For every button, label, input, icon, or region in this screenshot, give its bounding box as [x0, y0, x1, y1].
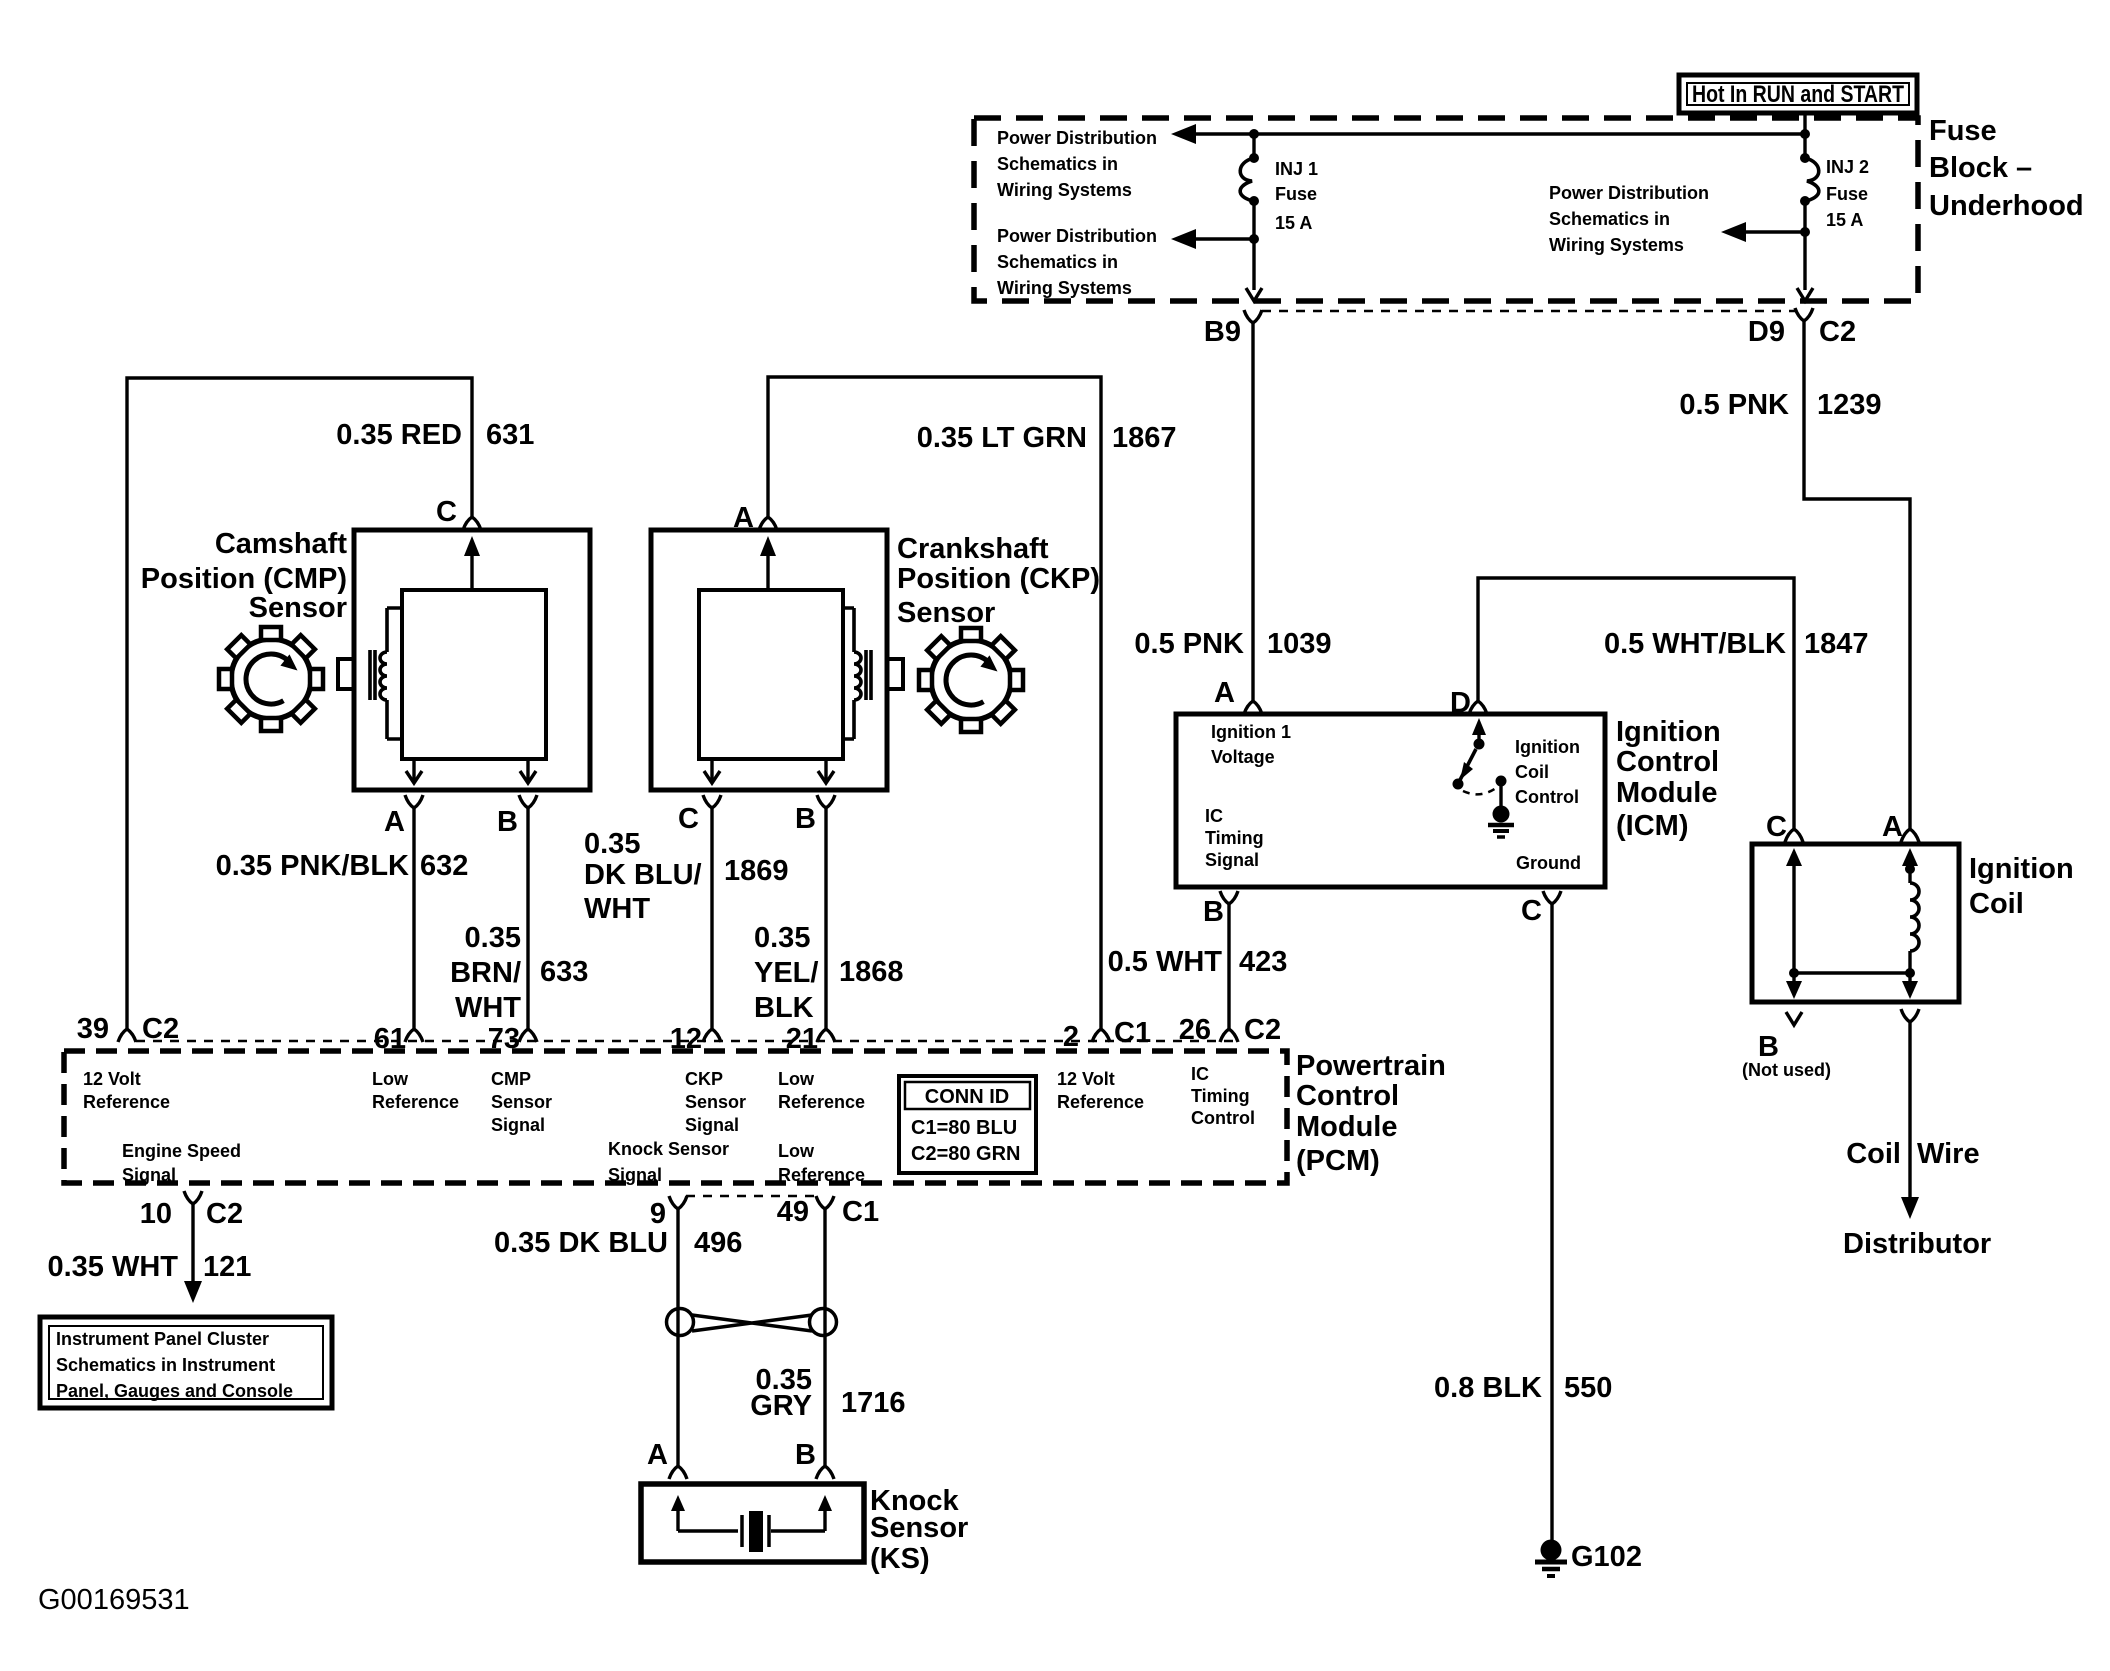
svg-text:Timing: Timing [1191, 1086, 1250, 1106]
svg-text:B: B [795, 1439, 816, 1471]
pin B of CMP sensor [497, 795, 537, 838]
pin C of ICM [1521, 891, 1561, 927]
svg-text:Sensor: Sensor [249, 592, 347, 624]
pin 49 C1 of PCM [777, 1196, 879, 1228]
svg-text:YEL/: YEL/ [754, 957, 818, 989]
svg-text:Underhood: Underhood [1929, 190, 2084, 222]
svg-text:Power Distribution: Power Distribution [997, 226, 1157, 246]
crankshaft position CKP sensor [651, 530, 903, 790]
svg-text:IC: IC [1191, 1064, 1209, 1084]
label: Power Distribution Schematics in Wiring Systems (top left) [997, 128, 1157, 200]
svg-text:Schematics in: Schematics in [997, 154, 1118, 174]
svg-text:15 A: 15 A [1275, 213, 1312, 233]
svg-text:Timing: Timing [1205, 828, 1264, 848]
svg-text:C: C [436, 496, 457, 528]
pin 10 C2 of PCM [140, 1191, 243, 1230]
wire 0.35 LT GRN 1867 (CKP A to PCM 2) [768, 377, 1101, 1029]
svg-text:Schematics in: Schematics in [1549, 209, 1670, 229]
svg-text:Fuse: Fuse [1826, 184, 1868, 204]
svg-text:C1=80 BLU: C1=80 BLU [911, 1117, 1017, 1139]
label: CKP Sensor Signal (pin 12) [685, 1069, 746, 1135]
label: Ignition Coil [1969, 853, 2074, 920]
svg-text:Reference: Reference [1057, 1092, 1144, 1112]
svg-text:G102: G102 [1571, 1541, 1642, 1573]
svg-text:G00169531: G00169531 [38, 1584, 190, 1616]
svg-text:Camshaft: Camshaft [215, 528, 347, 560]
knock sensor KS box [641, 1484, 864, 1562]
svg-text:C1: C1 [842, 1196, 879, 1228]
label: Engine Speed Signal (pin 10) [122, 1141, 241, 1185]
svg-text:Power Distribution: Power Distribution [1549, 183, 1709, 203]
svg-text:GRY: GRY [750, 1390, 812, 1422]
svg-text:49: 49 [777, 1196, 809, 1228]
svg-text:73: 73 [488, 1023, 520, 1055]
svg-text:CMP: CMP [491, 1069, 531, 1089]
svg-text:Wiring Systems: Wiring Systems [1549, 235, 1684, 255]
svg-text:CKP: CKP [685, 1069, 723, 1089]
pin A of ignition coil [1882, 811, 1919, 843]
PCM bottom connector boundary line (knock sensor pins) [686, 1195, 817, 1198]
svg-text:Low: Low [778, 1069, 815, 1089]
powertrain control module PCM dashed box [64, 1051, 1287, 1183]
svg-text:0.5 PNK: 0.5 PNK [1134, 628, 1244, 660]
label: 0.35 BRN/WHT 633 [450, 922, 588, 1024]
label: Knock Sensor Signal (pin 9) [608, 1139, 729, 1185]
pin D of ICM [1450, 687, 1487, 719]
pin B of CKP sensor [795, 795, 835, 835]
junction below INJ1 fuse [1249, 234, 1259, 244]
junction left coil bottom [1789, 968, 1799, 978]
svg-text:15 A: 15 A [1826, 210, 1863, 230]
ignition coil box [1752, 844, 1959, 1002]
svg-text:B9: B9 [1204, 316, 1241, 348]
svg-text:12 Volt: 12 Volt [83, 1069, 141, 1089]
svg-text:Instrument Panel Cluster: Instrument Panel Cluster [56, 1329, 269, 1349]
svg-text:2: 2 [1063, 1021, 1079, 1053]
svg-text:Ignition 1: Ignition 1 [1211, 722, 1291, 742]
svg-text:Ignition: Ignition [1515, 737, 1580, 757]
svg-text:12 Volt: 12 Volt [1057, 1069, 1115, 1089]
label: Power Distribution Schematics in Wiring Systems (lower left) [997, 226, 1157, 298]
svg-text:Schematics in: Schematics in [997, 252, 1118, 272]
label: 0.35 RED 631 [336, 419, 534, 451]
arrow: power distribution feed left from INJ2 [1721, 222, 1805, 242]
svg-text:1039: 1039 [1267, 628, 1332, 660]
svg-text:Low: Low [372, 1069, 409, 1089]
svg-text:12: 12 [670, 1023, 702, 1055]
svg-text:Ignition: Ignition [1969, 853, 2074, 885]
wire 0.35 BRN/WHT 633 (CMP B to PCM 73) [526, 808, 529, 1029]
svg-text:A: A [647, 1439, 668, 1471]
svg-text:IC: IC [1205, 806, 1223, 826]
svg-text:A: A [1882, 811, 1903, 843]
svg-text:Signal: Signal [608, 1165, 662, 1185]
svg-text:C1: C1 [1114, 1017, 1151, 1049]
svg-text:B: B [1203, 896, 1224, 928]
svg-text:INJ 1: INJ 1 [1275, 159, 1318, 179]
pin 61 of PCM [374, 1023, 423, 1055]
svg-text:Powertrain: Powertrain [1296, 1050, 1446, 1082]
svg-text:A: A [384, 806, 405, 838]
ICM internal ground [1493, 806, 1510, 823]
wire 0.35 GRY 1716 (PCM 49 to KS B) [823, 1209, 826, 1466]
wire: INJ1 fuse output exits fuse block [1246, 288, 1262, 301]
knock sensor piezo element [671, 1495, 832, 1552]
svg-text:1716: 1716 [841, 1387, 906, 1419]
ignition coil secondary winding [1902, 848, 1919, 999]
svg-text:Coil: Coil [1846, 1138, 1901, 1170]
CONN ID table [899, 1076, 1036, 1173]
svg-text:B: B [1758, 1031, 1779, 1063]
junction right coil bottom [1905, 968, 1915, 978]
svg-text:26: 26 [1179, 1014, 1211, 1046]
label: 0.35 DK BLU 496 [494, 1227, 742, 1259]
svg-text:Signal: Signal [685, 1115, 739, 1135]
label: 12 Volt Reference (pin 2) [1057, 1069, 1144, 1112]
pin B9 [1204, 310, 1262, 348]
svg-text:Position (CMP): Position (CMP) [141, 563, 347, 595]
ignition coil primary path [1786, 848, 1802, 999]
svg-text:BRN/: BRN/ [450, 957, 521, 989]
svg-text:Coil: Coil [1969, 888, 2024, 920]
wire 0.35 PNK/BLK 632 (CMP A to PCM 61) [412, 808, 415, 1029]
label: CMP Sensor Signal (pin 73) [491, 1069, 552, 1135]
wire 0.5 WHT/BLK 1847 [1478, 578, 1794, 829]
svg-text:Coil: Coil [1515, 762, 1549, 782]
wire 0.35 RED 631 (PCM 39 to CMP C) [127, 378, 472, 1029]
svg-text:Signal: Signal [122, 1165, 176, 1185]
label: Fuse Block - Underhood [1929, 115, 2084, 222]
junction at INJ2 fuse top [1800, 129, 1810, 139]
svg-text:0.35: 0.35 [584, 828, 640, 860]
junction below INJ2 fuse [1800, 227, 1810, 237]
label: 0.5 PNK 1239 [1679, 389, 1881, 421]
svg-text:0.8 BLK: 0.8 BLK [1434, 1372, 1542, 1404]
svg-text:Reference: Reference [83, 1092, 170, 1112]
wire: INJ2 fuse output exits fuse block [1797, 288, 1813, 301]
label: Coil Wire [1846, 1138, 1979, 1170]
svg-text:1868: 1868 [839, 956, 904, 988]
label: Ignition Control Module (ICM) [1616, 716, 1721, 842]
label: Ignition Coil Control (ICM pin D) [1515, 737, 1580, 807]
label: 12 Volt Reference (pin 39) [83, 1069, 170, 1112]
svg-text:Hot In RUN and START: Hot In RUN and START [1692, 81, 1904, 108]
svg-text:1847: 1847 [1804, 628, 1869, 660]
svg-text:WHT: WHT [455, 992, 521, 1024]
svg-text:0.35: 0.35 [754, 922, 810, 954]
svg-text:632: 632 [420, 850, 468, 882]
pin C of CKP sensor [678, 795, 721, 835]
label: 0.35 GRY 1716 [750, 1364, 905, 1422]
pin 73 of PCM [488, 1023, 537, 1055]
svg-text:D: D [1450, 687, 1471, 719]
svg-text:Control: Control [1515, 787, 1579, 807]
wire 0.5 PNK 1239 [1804, 321, 1910, 829]
pin 9 of PCM [650, 1196, 687, 1230]
svg-text:Voltage: Voltage [1211, 747, 1275, 767]
label: 0.8 BLK 550 [1434, 1372, 1612, 1404]
svg-text:Low: Low [778, 1141, 815, 1161]
label: Distributor [1843, 1228, 1991, 1260]
figure number G00169531 [38, 1584, 190, 1616]
svg-text:Signal: Signal [1205, 850, 1259, 870]
svg-text:Schematics in Instrument: Schematics in Instrument [56, 1355, 275, 1375]
pin D9 / C2 [1748, 308, 1856, 348]
arrow: power distribution feed left (lower) [1171, 229, 1254, 249]
pin A of CKP sensor [733, 502, 777, 534]
label: Camshaft Position (CMP) Sensor [141, 528, 348, 624]
svg-text:C2: C2 [142, 1013, 179, 1045]
svg-text:0.35 LT GRN: 0.35 LT GRN [917, 422, 1087, 454]
svg-text:Crankshaft: Crankshaft [897, 533, 1049, 565]
svg-text:CONN ID: CONN ID [925, 1086, 1009, 1108]
pin B of ICM [1203, 891, 1238, 928]
svg-text:D9: D9 [1748, 316, 1785, 348]
pin 26 C2 of PCM [1179, 1014, 1281, 1046]
svg-text:0.5 WHT/BLK: 0.5 WHT/BLK [1604, 628, 1786, 660]
label: 0.5 WHT/BLK 1847 [1604, 628, 1869, 660]
svg-text:Sensor: Sensor [685, 1092, 746, 1112]
camshaft position CMP sensor [338, 530, 590, 790]
reference box: Instrument Panel Cluster [40, 1317, 332, 1408]
svg-text:C2: C2 [1819, 316, 1856, 348]
svg-text:Reference: Reference [372, 1092, 459, 1112]
svg-text:Module: Module [1616, 777, 1718, 809]
label: 0.35 YEL/BLK 1868 [754, 922, 904, 1024]
wire 0.5 WHT 423 [1227, 904, 1230, 1029]
svg-text:Position (CKP): Position (CKP) [897, 563, 1100, 595]
fuse INJ 2 15A [1800, 153, 1819, 290]
svg-text:BLK: BLK [754, 992, 814, 1024]
svg-text:Block –: Block – [1929, 152, 2032, 184]
svg-text:0.35 PNK/BLK: 0.35 PNK/BLK [216, 850, 409, 882]
svg-text:1867: 1867 [1112, 422, 1177, 454]
svg-text:Module: Module [1296, 1111, 1398, 1143]
svg-text:Signal: Signal [491, 1115, 545, 1135]
pin B of ignition coil (not used) [1742, 1012, 1831, 1080]
svg-text:631: 631 [486, 419, 534, 451]
label: INJ 1 Fuse 15 A [1275, 159, 1318, 233]
label: IC Timing Control (pin 26) [1191, 1064, 1255, 1128]
pin C of CMP sensor [436, 496, 481, 530]
label: INJ 2 Fuse 15 A [1826, 157, 1869, 230]
svg-text:0.35 RED: 0.35 RED [336, 419, 462, 451]
svg-text:Fuse: Fuse [1929, 115, 1997, 147]
svg-text:Sensor: Sensor [897, 597, 995, 629]
label: Low Reference (pin 21) [778, 1069, 865, 1112]
svg-text:Ground: Ground [1516, 853, 1581, 873]
wire 0.8 BLK 550 [1550, 904, 1553, 1540]
svg-text:Control: Control [1616, 746, 1719, 778]
svg-text:Ignition: Ignition [1616, 716, 1721, 748]
svg-text:(ICM): (ICM) [1616, 810, 1688, 842]
svg-text:Sensor: Sensor [870, 1512, 968, 1544]
svg-text:1239: 1239 [1817, 389, 1882, 421]
svg-text:(KS): (KS) [870, 1543, 930, 1575]
pin B of knock sensor [795, 1439, 834, 1479]
svg-text:B: B [497, 806, 518, 838]
svg-text:0.5 WHT: 0.5 WHT [1108, 946, 1223, 978]
pin C of ignition coil [1766, 811, 1803, 843]
wire 0.5 PNK 1039 [1251, 323, 1254, 701]
svg-text:21: 21 [786, 1023, 818, 1055]
ICM internal driver switch [1453, 718, 1515, 837]
svg-text:B: B [795, 803, 816, 835]
svg-text:423: 423 [1239, 946, 1287, 978]
arrow: power distribution feed left (top) [1171, 124, 1196, 144]
label: Ground (ICM pin C) [1516, 853, 1581, 873]
connector boundary line B9/D9 [1262, 310, 1796, 313]
pin A of knock sensor [647, 1439, 687, 1479]
pin 2 C1 of PCM [1063, 1017, 1151, 1053]
svg-text:WHT: WHT [584, 893, 650, 925]
label: 0.35 PNK/BLK 632 [216, 850, 469, 882]
wire 0.35 WHT 121 [184, 1204, 202, 1303]
svg-text:(Not used): (Not used) [1742, 1060, 1831, 1080]
svg-text:Control: Control [1191, 1108, 1255, 1128]
svg-text:0.35: 0.35 [465, 922, 521, 954]
pin 12 of PCM [670, 1023, 721, 1055]
svg-text:C2=80 GRN: C2=80 GRN [911, 1143, 1021, 1165]
label: Ignition 1 Voltage (ICM pin A) [1211, 722, 1291, 767]
svg-text:Wiring Systems: Wiring Systems [997, 278, 1132, 298]
svg-text:Knock Sensor: Knock Sensor [608, 1139, 729, 1159]
svg-text:10: 10 [140, 1198, 172, 1230]
label: Power Distribution Schematics in Wiring Systems (middle) [1549, 183, 1709, 255]
svg-text:Fuse: Fuse [1275, 184, 1317, 204]
svg-text:1869: 1869 [724, 855, 789, 887]
svg-text:C: C [678, 803, 699, 835]
svg-text:(PCM): (PCM) [1296, 1145, 1380, 1177]
svg-text:C: C [1521, 895, 1542, 927]
pin A of CMP sensor [384, 795, 423, 838]
label: 0.5 PNK 1039 [1134, 628, 1331, 660]
label: Knock Sensor (KS) [870, 1485, 968, 1575]
svg-text:0.5 PNK: 0.5 PNK [1679, 389, 1789, 421]
svg-text:61: 61 [374, 1023, 406, 1055]
svg-text:0.35 WHT: 0.35 WHT [47, 1251, 178, 1283]
pin 39 C2 of PCM [77, 1013, 179, 1045]
fuse INJ 1 15A [1240, 134, 1259, 290]
svg-text:9: 9 [650, 1198, 666, 1230]
svg-text:DK BLU/: DK BLU/ [584, 859, 702, 891]
wire: Hot feed bus inside fuse block [1196, 113, 1805, 156]
fuse block - underhood dashed enclosure [974, 118, 1918, 301]
svg-text:Reference: Reference [778, 1165, 865, 1185]
svg-text:Power Distribution: Power Distribution [997, 128, 1157, 148]
label: 0.35 WHT 121 [47, 1251, 251, 1283]
label box: Hot In RUN and START [1679, 75, 1917, 113]
svg-text:Control: Control [1296, 1080, 1399, 1112]
svg-text:C2: C2 [1244, 1014, 1281, 1046]
label: Crankshaft Position (CKP) Sensor [897, 533, 1100, 629]
svg-text:121: 121 [203, 1251, 251, 1283]
svg-text:39: 39 [77, 1013, 109, 1045]
wire 0.35 DK BLU 496 (PCM 9 to KS A) [676, 1209, 679, 1466]
label: Low Reference (pin 61) [372, 1069, 459, 1112]
label: 0.5 WHT 423 [1108, 946, 1288, 978]
svg-text:Distributor: Distributor [1843, 1228, 1991, 1260]
pin 21 of PCM [786, 1023, 835, 1055]
label: Low Reference (pin 49) [778, 1141, 865, 1185]
svg-text:0.35 DK BLU: 0.35 DK BLU [494, 1227, 668, 1259]
svg-text:496: 496 [694, 1227, 742, 1259]
label: IC Timing Signal (ICM pin B) [1205, 806, 1264, 870]
wire 0.35 YEL/BLK 1868 (CKP B to PCM 21) [824, 808, 827, 1029]
svg-text:Engine Speed: Engine Speed [122, 1141, 241, 1161]
svg-text:633: 633 [540, 956, 588, 988]
ignition control module ICM box [1176, 714, 1605, 887]
coil wire to distributor [1901, 1009, 1919, 1219]
svg-text:A: A [1214, 677, 1235, 709]
label: Powertrain Control Module (PCM) [1296, 1050, 1446, 1177]
svg-text:550: 550 [1564, 1372, 1612, 1404]
svg-text:Panel, Gauges and Console: Panel, Gauges and Console [56, 1381, 293, 1401]
svg-text:C: C [1766, 811, 1787, 843]
twisted pair symbol [667, 1309, 837, 1336]
junction at INJ1 fuse top [1249, 129, 1259, 139]
svg-text:Wiring Systems: Wiring Systems [997, 180, 1132, 200]
svg-text:Sensor: Sensor [491, 1092, 552, 1112]
label: 0.35 LT GRN 1867 [917, 422, 1177, 454]
pin A of ICM [1214, 677, 1262, 714]
svg-text:Reference: Reference [778, 1092, 865, 1112]
PCM top connector boundary line [136, 1040, 1240, 1043]
svg-text:INJ 2: INJ 2 [1826, 157, 1869, 177]
wire: coil internal bottom link [1794, 971, 1910, 974]
CKP reluctor gear symbol [919, 628, 1023, 732]
label: 0.35 DK BLU/WHT 1869 [584, 828, 789, 925]
svg-text:C2: C2 [206, 1198, 243, 1230]
wire 0.35 DK BLU/WHT 1869 (CKP C to PCM 12) [710, 808, 713, 1029]
CMP reluctor gear symbol [219, 627, 323, 731]
svg-text:Wire: Wire [1917, 1138, 1980, 1170]
ground G102 [1535, 1540, 1642, 1577]
